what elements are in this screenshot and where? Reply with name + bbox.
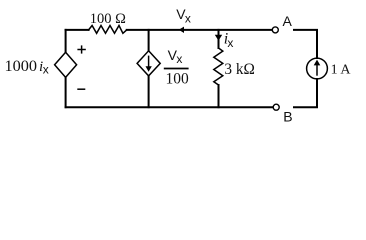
current source 1A circle	[307, 58, 328, 79]
ix current arrow on 3k branch	[215, 35, 222, 41]
wire middle branch upper	[148, 30, 150, 51]
wire external bottom	[294, 79, 317, 107]
terminal B circle	[273, 104, 279, 110]
wire external top	[294, 30, 317, 58]
resistor 3k zigzag	[214, 48, 223, 85]
wire left branch upper	[65, 30, 67, 52]
wire top middle segment	[127, 29, 272, 31]
wire top-left segment	[66, 29, 89, 31]
arrow of 1A current source	[314, 60, 321, 76]
arrow of dependent current source	[146, 56, 152, 72]
terminal A circle	[272, 27, 278, 33]
svg-text:100 Ω: 100 Ω	[90, 11, 126, 27]
label 1000 ix	[5, 56, 49, 77]
svg-text:x: x	[185, 11, 191, 25]
svg-text:1 A: 1 A	[331, 62, 352, 77]
label Vx/100 fraction	[164, 47, 189, 88]
label Vx top	[176, 6, 191, 26]
wire 3k branch upper	[218, 30, 220, 48]
Vx reference arrow on top wire	[179, 27, 184, 33]
svg-text:B: B	[283, 108, 292, 124]
label ix top	[224, 30, 234, 50]
wire 3k branch lower	[218, 85, 220, 107]
plus sign of dependent voltage source	[77, 45, 85, 53]
wire bottom segment	[66, 106, 273, 108]
minus sign of dependent voltage source	[77, 88, 85, 90]
svg-text:100: 100	[166, 71, 190, 88]
dependent current source Vx/100 diamond	[137, 51, 160, 76]
svg-text:x: x	[176, 52, 182, 66]
svg-text:x: x	[227, 36, 233, 50]
wire left branch lower	[65, 77, 67, 107]
wire middle branch lower	[148, 76, 150, 107]
svg-text:A: A	[283, 13, 293, 29]
resistor 100 ohm zigzag	[89, 26, 127, 34]
svg-text:x: x	[43, 63, 49, 77]
svg-text:1000: 1000	[5, 56, 38, 75]
dependent voltage source 1000ix diamond	[55, 52, 77, 77]
svg-text:3 kΩ: 3 kΩ	[224, 61, 255, 78]
